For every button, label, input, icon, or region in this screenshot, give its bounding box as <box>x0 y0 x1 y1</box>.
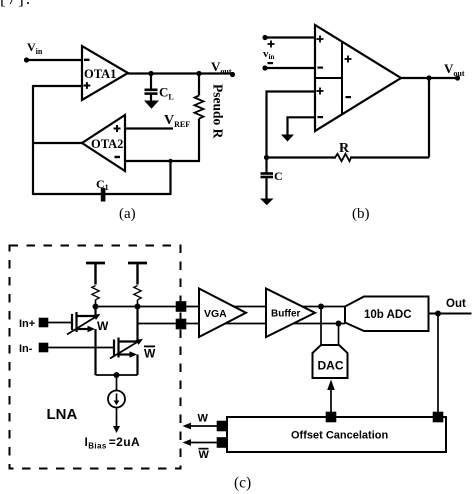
svg-text:LNA: LNA <box>47 406 78 423</box>
wire Wbar to LNA <box>190 442 217 444</box>
label Out <box>446 298 466 310</box>
caption (b) <box>352 206 370 222</box>
svg-text:Offset Cancelation: Offset Cancelation <box>291 430 388 442</box>
label 10b ADC <box>364 309 412 321</box>
block Offset Cancelation <box>227 417 446 452</box>
junction dot tail <box>114 372 120 378</box>
ground under C <box>260 199 274 206</box>
svg-text:In+: In+ <box>19 318 35 330</box>
label In- <box>19 343 33 355</box>
label Ibias=2uA <box>85 435 141 451</box>
svg-text:[7].: [7]. <box>0 0 32 8</box>
pad VGA in+ <box>176 301 187 312</box>
junction dot out <box>435 311 441 317</box>
resistor pseudo-R <box>195 74 204 162</box>
supply rail 1 <box>86 263 105 285</box>
label Pseudo R (rotated) <box>211 84 226 139</box>
wire tail <box>96 374 138 376</box>
arrowhead into DAC <box>327 380 335 391</box>
pad VGA in- <box>176 319 187 330</box>
wire bottom feedback <box>33 193 172 195</box>
wire W to LNA <box>190 425 217 427</box>
node Vin dot <box>24 57 29 62</box>
wire bottom rail to VGA <box>138 323 346 325</box>
LNA dashed box <box>10 246 181 469</box>
junction dot C <box>264 155 269 160</box>
pad offset top <box>326 412 337 423</box>
current source Ibias <box>108 375 125 433</box>
wire bottom feedback <box>267 156 337 158</box>
node Vout label <box>444 61 465 78</box>
transistor M2 <box>110 307 143 376</box>
label In+ <box>19 318 35 330</box>
wire OTA1 output to Vout <box>128 72 233 74</box>
amplifier VGA <box>199 289 246 338</box>
node Vout label <box>211 59 232 76</box>
wire OTA2 output to left rail <box>33 142 82 144</box>
wire VREF to OTA2 non-inverting input <box>125 127 173 129</box>
capacitor CL <box>145 74 158 101</box>
label C1 <box>96 177 109 192</box>
wire left feedback rail <box>32 85 34 195</box>
node Vin label <box>27 40 43 56</box>
junction dot pseudo-R <box>196 71 201 76</box>
label Wbar (M2) <box>144 346 156 361</box>
op-amp inner divider horizontal <box>315 77 342 79</box>
amplifier Buffer <box>266 289 315 338</box>
junction dot drain 2 <box>135 304 141 310</box>
svg-text:(c): (c) <box>234 475 251 492</box>
capacitor C <box>261 158 274 199</box>
junction dot bottom rail <box>336 321 342 327</box>
wire ADC out <box>429 313 472 315</box>
op-amp U1 <box>315 25 401 131</box>
wire drop to DAC right <box>338 324 340 346</box>
wire grounded input <box>288 117 316 135</box>
label C <box>274 169 283 183</box>
svg-text:W: W <box>199 449 210 461</box>
supply rail 2 <box>128 263 147 285</box>
arrowhead W <box>183 423 192 430</box>
wire In+ to M1 gate <box>48 322 71 324</box>
resistor R <box>335 154 351 161</box>
block ADC <box>345 297 429 332</box>
arrowhead Wbar <box>183 439 192 446</box>
svg-text:W: W <box>144 347 156 361</box>
block DAC <box>313 345 348 378</box>
node VREF label <box>164 113 190 129</box>
op-amp OTA1 <box>82 46 128 100</box>
svg-text:(b): (b) <box>352 206 370 222</box>
junction dot feedback tap <box>168 159 172 163</box>
svg-text:OTA2: OTA2 <box>91 137 123 151</box>
wire vin+ input <box>265 36 315 38</box>
label W (M1) <box>97 319 109 333</box>
wire OTA1 non-inverting input to left rail <box>33 85 82 87</box>
op-amp input polarity marks <box>317 36 352 119</box>
wire Vin to OTA1 inverting input <box>27 59 83 61</box>
capacitor C1 <box>101 188 106 202</box>
junction dot drain 1 <box>93 304 99 310</box>
wire out feedback drop <box>437 314 439 413</box>
svg-text:Out: Out <box>446 298 466 310</box>
svg-text:W: W <box>198 413 209 425</box>
svg-text:10b ADC: 10b ADC <box>364 309 412 321</box>
svg-text:In-: In- <box>19 343 33 355</box>
svg-text:VGA: VGA <box>204 308 227 320</box>
label W (feedback) <box>198 413 209 425</box>
ground at 4th input <box>281 135 294 142</box>
transistor M1 <box>67 307 101 376</box>
label + <box>268 41 275 48</box>
svg-text:DAC: DAC <box>318 359 344 373</box>
label R <box>339 141 350 156</box>
pad In+ <box>39 318 49 328</box>
svg-text:C: C <box>274 169 283 183</box>
label LNA <box>47 406 78 423</box>
junction dot buffer out top <box>318 304 324 310</box>
pad In- <box>39 343 49 353</box>
node Vout dot <box>455 75 460 80</box>
label Wbar (feedback) <box>199 448 210 461</box>
svg-text:(a): (a) <box>119 206 136 222</box>
svg-text:W: W <box>97 319 109 333</box>
wire In- to M2 gate <box>48 347 113 349</box>
wire right drop to bottom feedback <box>169 161 171 195</box>
wire vin- input <box>265 67 315 69</box>
pad Wbar out <box>217 437 228 448</box>
label Buffer <box>271 309 301 320</box>
label - <box>268 62 274 64</box>
wire drop to DAC left <box>320 307 322 346</box>
wire OTA2 inverting input to pseudo-R bottom <box>125 160 200 162</box>
label CL <box>159 85 174 102</box>
junction dot CL <box>148 71 153 76</box>
wire DAC control <box>330 390 332 417</box>
label Offset Cancelation <box>291 430 388 442</box>
svg-text:R: R <box>339 141 350 156</box>
svg-text:Pseudo R: Pseudo R <box>211 84 226 139</box>
caption (c) <box>234 475 251 492</box>
op-amp inner divider vertical <box>341 42 343 115</box>
wire feedback input <box>267 92 316 158</box>
svg-text:Buffer: Buffer <box>271 309 301 320</box>
label VGA <box>204 308 227 320</box>
pad offset right <box>433 412 444 423</box>
wire top rail to VGA <box>96 306 346 308</box>
node vin label <box>263 48 274 61</box>
wire right feedback drop <box>428 78 430 158</box>
pad W out <box>217 421 228 432</box>
op-amp OTA2 <box>82 115 125 171</box>
label DAC <box>318 359 344 373</box>
caption (a) <box>119 206 136 222</box>
node vin- dot <box>262 65 267 70</box>
resistor load 1 <box>92 286 99 307</box>
node Vout dot <box>230 72 235 77</box>
junction dot output feedback <box>426 75 431 80</box>
svg-text:OTA1: OTA1 <box>84 67 116 81</box>
resistor load 2 <box>134 286 141 307</box>
ground under CL <box>144 101 159 109</box>
node vin+ dot <box>262 35 267 40</box>
wire output <box>401 77 458 79</box>
